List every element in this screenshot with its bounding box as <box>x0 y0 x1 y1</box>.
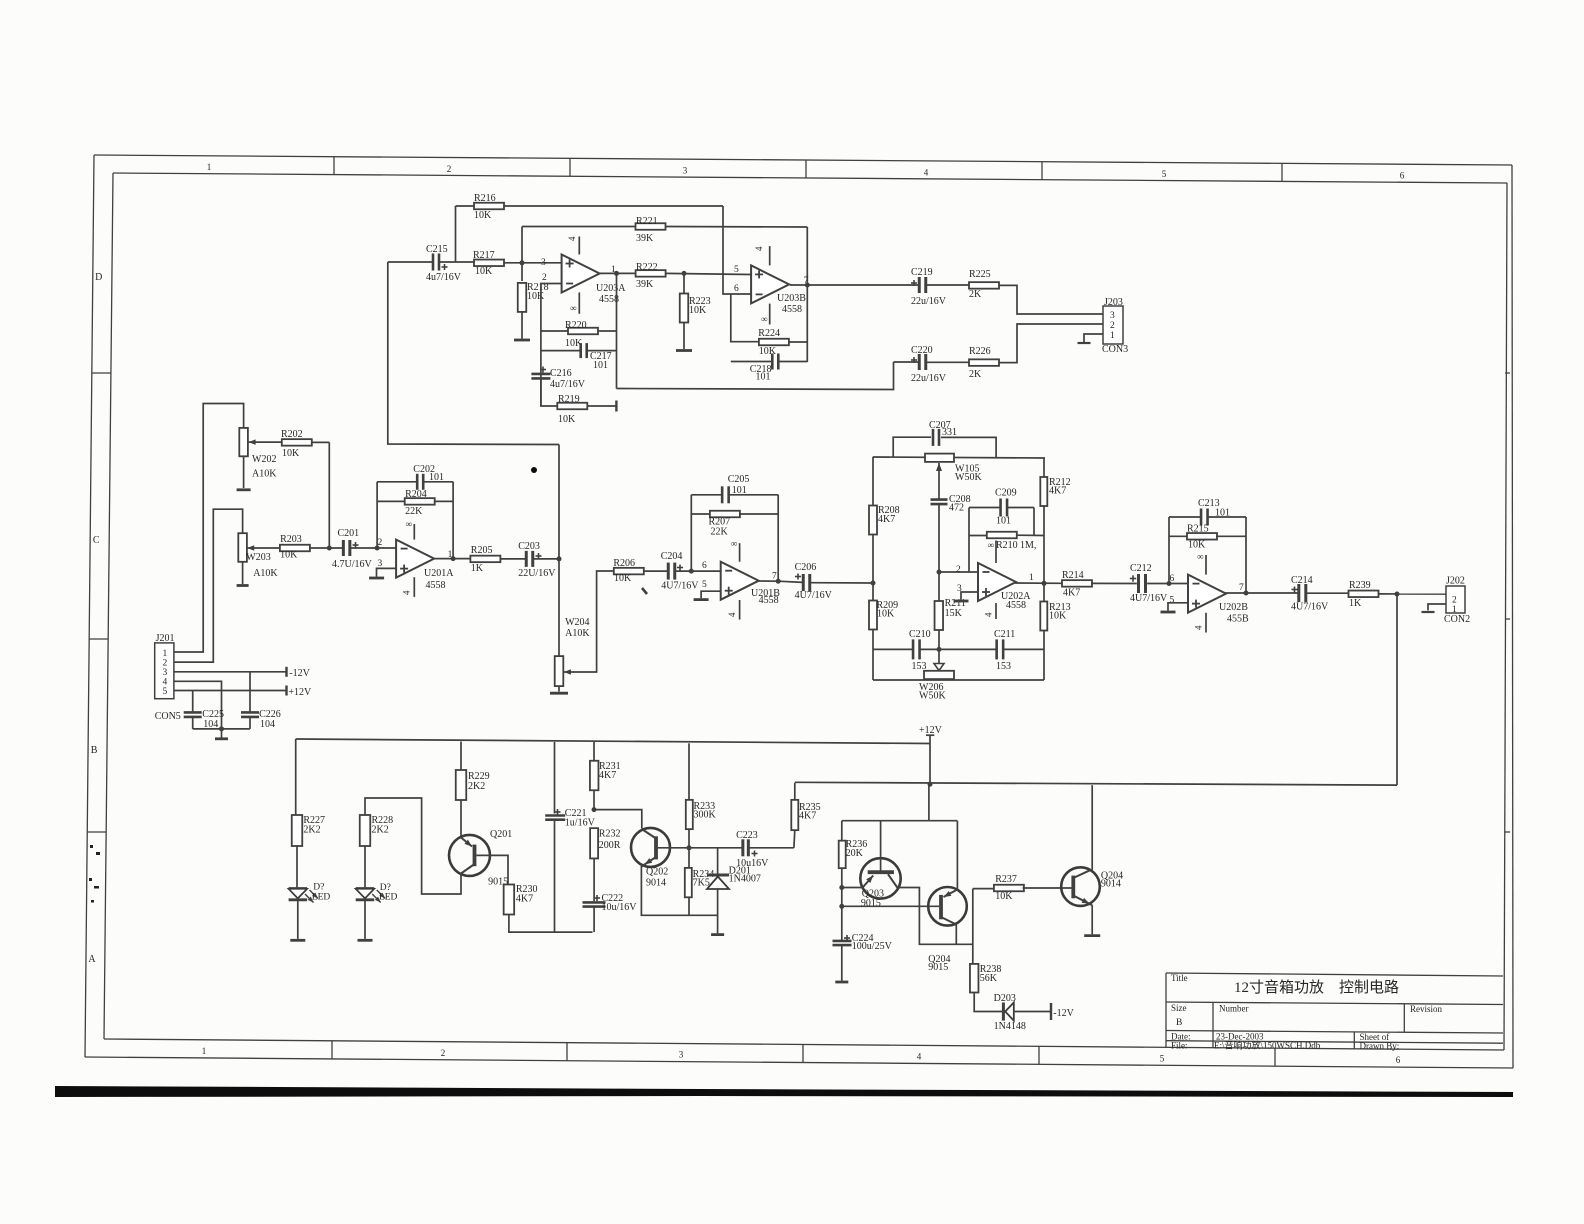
svg-text:10K: 10K <box>614 573 632 584</box>
wire output U203A <box>598 272 636 274</box>
svg-text:4u7/16V: 4u7/16V <box>426 272 462 283</box>
resistor R235 <box>793 830 796 848</box>
resistor R239 <box>1349 591 1379 598</box>
power pin U203A top <box>578 237 580 255</box>
svg-text:CON5: CON5 <box>155 711 181 722</box>
ground D201 <box>711 933 724 936</box>
wire pin5 U202B ground <box>1168 603 1188 611</box>
wire top rail right <box>795 782 1397 785</box>
resistor R206 <box>614 568 644 575</box>
node R223 <box>682 271 687 276</box>
svg-text:22u/16V: 22u/16V <box>911 296 947 307</box>
resistor R238 <box>970 964 979 993</box>
wire R237 node vertical <box>972 889 974 964</box>
resistor R219 <box>541 379 558 407</box>
op-amp U202A <box>978 563 1016 601</box>
capacitor C219 <box>918 277 921 293</box>
svg-text:10K: 10K <box>1049 611 1067 622</box>
node output U201B <box>776 579 781 584</box>
svg-text:W50K: W50K <box>919 691 946 702</box>
svg-text:4: 4 <box>727 612 737 617</box>
svg-text:22u/16V: 22u/16V <box>911 373 947 384</box>
wire output U202B <box>1225 592 1298 594</box>
left zone ticks <box>92 372 111 374</box>
transistor Q202 <box>631 828 670 867</box>
wire R230 bottom to C222 <box>509 915 593 933</box>
capacitor C225 <box>192 691 194 713</box>
svg-text:2: 2 <box>441 1048 446 1058</box>
connector J202 <box>1446 586 1465 613</box>
svg-text:J201: J201 <box>156 633 175 644</box>
svg-text:5: 5 <box>734 265 739 275</box>
svg-text:1N4148: 1N4148 <box>994 1021 1026 1032</box>
svg-text:D?: D? <box>380 883 391 893</box>
svg-text:Size: Size <box>1171 1003 1187 1013</box>
wire long return y388 <box>617 362 894 390</box>
svg-text:∞: ∞ <box>761 314 767 324</box>
capacitor C202 <box>377 481 416 483</box>
svg-text:C212: C212 <box>1130 563 1152 574</box>
svg-text:2: 2 <box>956 565 961 575</box>
svg-text:C211: C211 <box>994 629 1015 640</box>
wire sub-circuit top bar <box>928 785 930 821</box>
power pin U203A bottom <box>578 292 580 313</box>
capacitor C207 <box>893 437 931 457</box>
node R231 R232 <box>592 807 597 812</box>
op-amp U202B <box>1188 575 1226 613</box>
power pin U202A bottom <box>995 603 997 619</box>
resistor R221 <box>522 226 636 228</box>
wire C225 C226 join <box>193 728 250 730</box>
wire Q204 base rail <box>842 905 939 907</box>
svg-text:101: 101 <box>429 472 444 483</box>
svg-text:4U7/16V: 4U7/16V <box>661 581 699 592</box>
wire J201 pin3 -12V <box>174 671 287 673</box>
svg-text:C201: C201 <box>338 528 360 539</box>
capacitor C204 <box>667 563 670 580</box>
svg-text:200R: 200R <box>599 840 621 851</box>
node output U201A <box>451 556 456 561</box>
svg-text:10K: 10K <box>474 210 492 221</box>
svg-text:10K: 10K <box>759 346 777 357</box>
svg-text:9015: 9015 <box>861 898 881 909</box>
svg-text:2: 2 <box>447 164 452 174</box>
wire pin3 U202A ground <box>961 592 978 600</box>
terminal tick R219 <box>615 401 617 412</box>
svg-text:5: 5 <box>1162 169 1167 179</box>
svg-text:5: 5 <box>163 687 168 697</box>
svg-text:10K: 10K <box>689 305 707 316</box>
svg-text:-12V: -12V <box>289 668 310 679</box>
svg-text:10K: 10K <box>1188 540 1206 551</box>
svg-text:3: 3 <box>1110 311 1115 321</box>
resistor R209 <box>869 601 877 630</box>
capacitor C212 <box>1137 574 1140 593</box>
capacitor C221 <box>554 742 556 814</box>
svg-text:R226: R226 <box>969 346 991 357</box>
svg-text:C204: C204 <box>661 551 683 562</box>
power pin U201A bottom <box>413 577 415 597</box>
svg-text:LED: LED <box>312 893 331 903</box>
parallel R210 C209 left vertical <box>968 508 970 573</box>
capacitor C211 <box>995 639 998 659</box>
ground LED right <box>358 939 373 942</box>
svg-text:D?: D? <box>313 883 324 893</box>
svg-text:4: 4 <box>163 678 168 688</box>
svg-text:R237: R237 <box>995 874 1017 885</box>
feedback loop U202B verticals <box>1168 517 1170 584</box>
resistor R233 <box>688 743 690 800</box>
svg-text:56K: 56K <box>980 973 998 984</box>
transistor Q203 <box>860 858 900 898</box>
svg-text:A: A <box>88 954 96 965</box>
svg-text:10u/16V: 10u/16V <box>602 902 638 913</box>
svg-text:5: 5 <box>1160 1053 1165 1063</box>
svg-text:U203B: U203B <box>777 293 806 304</box>
svg-text:9014: 9014 <box>1101 879 1121 890</box>
svg-text:300K: 300K <box>694 810 717 821</box>
wire W204 wiper to R206 <box>568 571 614 672</box>
resistor R220 <box>541 330 568 332</box>
svg-text:4: 4 <box>402 590 412 595</box>
svg-text:C210: C210 <box>909 629 931 640</box>
svg-text:-12V: -12V <box>1053 1008 1074 1019</box>
svg-text:R215: R215 <box>1187 524 1209 535</box>
svg-text:9015: 9015 <box>928 962 948 973</box>
node Q204 base rail <box>839 904 844 909</box>
node output U203B <box>805 283 810 288</box>
svg-text:10K: 10K <box>527 291 545 302</box>
capacitor C209 <box>969 507 1000 509</box>
svg-text:2: 2 <box>378 538 383 548</box>
power pin U202A top <box>995 541 997 564</box>
svg-text:4K7: 4K7 <box>1049 486 1066 497</box>
svg-text:39K: 39K <box>636 279 654 290</box>
wire R228 to Q201 collector <box>365 798 461 894</box>
svg-text:3: 3 <box>679 1050 684 1060</box>
svg-text:R224: R224 <box>758 328 780 339</box>
potentiometer W105 <box>925 454 954 462</box>
capacitor C216 <box>531 373 550 376</box>
capacitor C220 <box>894 361 919 363</box>
svg-text:39K: 39K <box>636 233 654 244</box>
resistor R232 <box>590 828 598 858</box>
bottom scan bar <box>55 1086 1513 1097</box>
node J202 branch <box>1395 592 1400 597</box>
svg-text:101: 101 <box>593 360 608 371</box>
resistor R205 <box>470 556 500 563</box>
svg-text:4u7/16V: 4u7/16V <box>550 379 586 390</box>
wire J201 pin1 to W202 <box>174 404 244 653</box>
top zone ticks <box>333 157 335 175</box>
node Q202 base <box>687 845 692 850</box>
capacitor C201 <box>342 540 345 556</box>
svg-text:4K7: 4K7 <box>599 770 616 781</box>
wire J202 branch to rail <box>1396 594 1398 785</box>
resistor R234 <box>688 848 690 868</box>
svg-text:2K2: 2K2 <box>468 781 485 792</box>
svg-text:455B: 455B <box>1227 614 1249 625</box>
svg-text:∞: ∞ <box>731 539 737 549</box>
ground LED left <box>290 939 305 942</box>
svg-text:File:: File: <box>1171 1040 1188 1050</box>
op-amp U201A <box>396 540 434 578</box>
svg-text:104: 104 <box>260 719 275 730</box>
capacitor C226 <box>249 672 251 712</box>
node output U202B <box>1244 591 1249 596</box>
wire pin3 U201A ground <box>377 568 397 576</box>
svg-text:4: 4 <box>567 236 577 241</box>
ground R218 <box>514 339 530 342</box>
svg-text:R225: R225 <box>969 269 991 280</box>
svg-text:2: 2 <box>1452 596 1457 606</box>
wire output U202A <box>1015 582 1063 584</box>
svg-text:U203A: U203A <box>596 283 626 294</box>
svg-text:LED: LED <box>379 893 398 903</box>
wire output U203B <box>790 284 919 286</box>
svg-text:1: 1 <box>163 649 168 659</box>
potentiometer W203 <box>238 533 247 562</box>
wire Q202 collector to R231 <box>594 810 642 829</box>
op-amp U203B <box>751 265 789 303</box>
svg-text:CON3: CON3 <box>1102 344 1128 355</box>
svg-text:2: 2 <box>542 273 547 283</box>
scan specks left margin <box>90 845 93 848</box>
svg-text:6: 6 <box>1396 1055 1401 1065</box>
capacitor C214 <box>1297 584 1300 602</box>
resistor R227 <box>295 739 297 815</box>
resistor R225 <box>969 282 999 289</box>
svg-text:Revision: Revision <box>1410 1004 1443 1014</box>
wire bottom rail W105 network <box>873 679 1044 681</box>
transistor Q201 <box>449 835 490 876</box>
capacitor C222 <box>593 859 595 902</box>
svg-text:Q201: Q201 <box>490 829 512 840</box>
svg-text:C220: C220 <box>911 345 933 356</box>
resistor R210 <box>969 535 987 537</box>
svg-text:R216: R216 <box>474 193 496 204</box>
wire R202 to input node <box>328 442 330 548</box>
svg-text:U201A: U201A <box>424 568 454 579</box>
svg-text:1K: 1K <box>471 563 484 574</box>
svg-text:7: 7 <box>1239 583 1244 593</box>
resistor R211 <box>938 572 940 601</box>
wire R216 to pin6 <box>723 206 751 294</box>
svg-text:C203: C203 <box>518 541 540 552</box>
svg-text:1N4007: 1N4007 <box>729 874 761 885</box>
capacitor C206 <box>802 574 805 591</box>
bottom zone ticks <box>331 1041 333 1059</box>
svg-text:R206: R206 <box>613 558 635 569</box>
svg-text:4: 4 <box>1194 625 1204 630</box>
node input rail <box>871 581 876 586</box>
op-amp U201B <box>721 562 759 600</box>
capacitor C217 <box>541 350 581 352</box>
wire J201 pin5 +12V <box>174 690 287 692</box>
node +12V rail <box>928 782 933 787</box>
svg-text:4U7/16V: 4U7/16V <box>1130 593 1168 604</box>
svg-text:R239: R239 <box>1349 580 1371 591</box>
svg-text:A10K: A10K <box>253 568 278 579</box>
svg-text:W203: W203 <box>246 552 270 563</box>
resistor R204 <box>377 500 405 502</box>
svg-text:CON2: CON2 <box>1444 614 1470 625</box>
wire C215 input loop <box>388 262 559 445</box>
power pin U202B bottom <box>1205 613 1207 633</box>
resistor R228 <box>360 815 371 846</box>
svg-text:C209: C209 <box>995 488 1017 499</box>
capacitor C223 <box>689 847 742 849</box>
svg-text:4558: 4558 <box>782 304 802 315</box>
svg-text:J203: J203 <box>1104 297 1123 308</box>
wire top rail left <box>296 739 930 744</box>
svg-text:15K: 15K <box>945 608 963 619</box>
node Q203 emitter <box>839 885 844 890</box>
svg-text:D203: D203 <box>994 993 1016 1004</box>
svg-text:B: B <box>91 745 98 756</box>
border inner frame <box>113 173 1507 183</box>
svg-text:10u16V: 10u16V <box>736 858 769 869</box>
potentiometer W204 <box>555 656 564 686</box>
ground W203 <box>237 584 249 587</box>
svg-text:1M,: 1M, <box>1020 540 1036 551</box>
power pin U201B bottom <box>739 600 741 620</box>
svg-text:A10K: A10K <box>252 469 277 480</box>
svg-text:R221: R221 <box>636 216 658 227</box>
ground W202 <box>237 488 251 491</box>
resistor R237 <box>973 888 995 890</box>
ground CON5 <box>221 729 223 738</box>
node pin6 U201B <box>689 569 694 574</box>
svg-text:100u/25V: 100u/25V <box>852 941 893 952</box>
power pin U203B bottom <box>769 304 771 325</box>
svg-text:R217: R217 <box>473 250 495 261</box>
svg-text:6: 6 <box>1170 574 1175 584</box>
svg-text:C223: C223 <box>736 830 758 841</box>
resistor R218 <box>521 227 523 282</box>
svg-text:4K7: 4K7 <box>516 894 533 905</box>
svg-text:4: 4 <box>924 167 929 177</box>
svg-text:22K: 22K <box>711 527 729 538</box>
wire right rail W105 network <box>1043 458 1045 680</box>
svg-text:6: 6 <box>734 284 739 294</box>
capacitor C208 <box>931 498 948 501</box>
svg-text:R205: R205 <box>471 545 493 556</box>
capacitor C205 <box>691 494 722 496</box>
svg-text:3: 3 <box>541 258 546 268</box>
svg-text:R202: R202 <box>281 429 303 440</box>
wire left rail W105 network <box>872 457 874 680</box>
svg-text:4K7: 4K7 <box>878 514 895 525</box>
resistor R213 <box>1040 602 1047 631</box>
svg-text:2K: 2K <box>969 369 982 380</box>
scan speck dash <box>642 588 647 594</box>
wire pin2 U202A <box>939 571 978 573</box>
resistor R223 <box>683 273 685 293</box>
resistor R208 <box>869 506 877 535</box>
svg-text:R219: R219 <box>558 394 580 405</box>
svg-text:472: 472 <box>949 503 964 514</box>
svg-text:5: 5 <box>1170 596 1175 606</box>
scan speck dot <box>531 467 537 473</box>
svg-text:C219: C219 <box>911 267 933 278</box>
svg-text:101: 101 <box>996 516 1011 527</box>
svg-text:4558: 4558 <box>426 580 446 591</box>
wire top rail W105 <box>873 457 1045 458</box>
power pin U202B top <box>1205 555 1207 575</box>
node pin3 U203A <box>520 260 525 265</box>
resistor R203 <box>252 547 281 549</box>
wire output U201A <box>435 558 471 560</box>
svg-text:3: 3 <box>683 166 688 176</box>
transistor Q204 9015 <box>928 887 967 926</box>
svg-text:R204: R204 <box>405 489 427 500</box>
svg-text:7K5: 7K5 <box>693 878 710 889</box>
wire J202 pin1 ground <box>1428 604 1446 610</box>
svg-text:W202: W202 <box>252 454 276 465</box>
svg-text:4.7U/16V: 4.7U/16V <box>332 559 373 570</box>
capacitor C215 <box>388 261 432 263</box>
resistor R215 <box>1169 535 1188 537</box>
node output U202A <box>1042 581 1047 586</box>
resistor R229 <box>460 742 462 771</box>
node C203 W204 <box>557 556 562 561</box>
terminal -12V <box>1050 1003 1052 1020</box>
svg-text:R220: R220 <box>565 320 587 331</box>
svg-text:6: 6 <box>1400 171 1405 181</box>
svg-text:R210: R210 <box>996 540 1018 551</box>
feedback loop U201A verticals <box>376 482 378 548</box>
wire Q202 emitter down <box>641 866 717 915</box>
svg-text:101: 101 <box>756 372 771 383</box>
svg-text:Title: Title <box>1171 973 1188 983</box>
svg-text:C: C <box>93 535 100 546</box>
potentiometer W202 <box>239 428 248 456</box>
resistor R236 <box>841 821 843 841</box>
svg-text:3: 3 <box>378 559 383 569</box>
resistor R224 <box>731 294 760 342</box>
svg-text:331: 331 <box>942 427 957 438</box>
svg-text:153: 153 <box>996 661 1011 672</box>
svg-text:1u/16V: 1u/16V <box>565 818 596 829</box>
svg-text:R214: R214 <box>1062 570 1084 581</box>
title block frame <box>1166 973 1503 976</box>
svg-text:10K: 10K <box>280 550 298 561</box>
diode D203 <box>1002 1003 1005 1021</box>
svg-text:4K7: 4K7 <box>1063 588 1080 599</box>
wire Q203 collector <box>897 888 973 945</box>
svg-text:C215: C215 <box>426 244 448 255</box>
svg-text:2K2: 2K2 <box>303 825 320 836</box>
svg-text:4: 4 <box>754 246 764 251</box>
svg-text:Drawn By:: Drawn By: <box>1360 1041 1400 1051</box>
wire J201 pin4 ground <box>174 681 222 729</box>
svg-text:22U/16V: 22U/16V <box>518 568 556 579</box>
LED D? right <box>364 846 366 887</box>
connector J203 <box>1103 306 1123 344</box>
svg-text:∞: ∞ <box>570 303 576 313</box>
svg-text:C214: C214 <box>1291 575 1313 586</box>
svg-text:U202B: U202B <box>1219 602 1248 613</box>
wire output U201B <box>757 581 803 582</box>
svg-text:B: B <box>1176 1018 1182 1028</box>
svg-text:4K7: 4K7 <box>799 811 816 822</box>
svg-text:A10K: A10K <box>565 628 590 639</box>
svg-text:20K: 20K <box>846 848 864 859</box>
node pin2 U201A <box>375 546 380 551</box>
resistor R217 <box>474 260 504 267</box>
wire W204 riser <box>558 445 560 657</box>
